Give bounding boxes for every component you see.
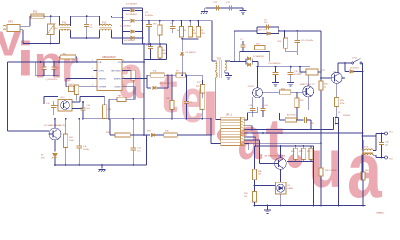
svg-text:6: 6 [123,76,124,78]
choke TV2 top winding [100,24,112,25]
wire [290,75,292,80]
capacitor C6 [266,24,268,29]
node [255,145,257,147]
wire [123,10,131,12]
wire SP right 2 [244,125,252,127]
ground C15b [287,80,294,86]
wire [20,29,23,31]
wire [23,43,60,45]
wire [284,31,286,38]
node [132,118,134,120]
wire [215,71,217,73]
svg-text:5: 5 [123,84,124,86]
node [132,118,134,120]
wire [248,112,258,114]
wire [275,67,277,73]
wire opto left top [44,96,58,98]
diode D7 [247,57,250,60]
capacitor C16a [250,109,255,111]
capacitor C9 [51,67,56,69]
capacitor CY2 [229,5,231,10]
node [280,145,282,147]
wire [252,111,254,117]
wire [54,104,58,106]
resistor R13 [103,105,107,119]
svg-text:50v: 50v [385,144,388,146]
wire [224,71,226,73]
wire [254,202,256,206]
wire [74,86,75,88]
svg-text:Q6 SMBT2907A(LT3): Q6 SMBT2907A(LT3) [264,155,285,158]
node [278,30,280,32]
wire opto right bottom [72,108,83,110]
wire [275,75,277,80]
wire [354,71,363,73]
node [295,145,297,147]
wire [338,62,352,64]
svg-text:8: 8 [123,60,124,62]
wire [155,134,164,136]
wire bridge negative bus [123,43,167,45]
node [54,164,56,166]
wire x146 vertical [146,135,148,165]
wire [201,110,203,119]
wire +310V bus [143,20,212,22]
wire R bottoms [287,161,311,163]
capacitor C14b electro [273,73,279,75]
diode VD9 [151,133,154,136]
component Y1 [69,86,74,92]
resistor R24 [280,90,291,94]
node [320,205,322,207]
wire [251,126,253,130]
wire [130,134,144,136]
wire [65,79,67,87]
transformer TV3 core2 [220,60,222,78]
wire [86,16,88,24]
wire [242,47,244,51]
wire R24 to Q3 [291,91,303,93]
wire [59,16,61,26]
wire [376,133,385,135]
svg-text:D7 HER106: D7 HER106 [253,56,265,58]
capacitor C12 [51,106,56,108]
ground CY right [240,8,247,14]
choke TV2 core [100,28,112,30]
svg-text:56R: 56R [365,170,369,172]
node [82,118,84,120]
wire y120 a [280,119,286,121]
wire [376,157,385,159]
wire IC vcc row [35,61,97,63]
node [201,118,203,120]
node [257,66,259,68]
wire [202,93,204,98]
wire y135 b [177,134,211,136]
wire [295,146,297,148]
node [86,37,88,39]
wire to XT1 branch [363,135,377,137]
wire [108,99,110,119]
wire [43,97,45,105]
node [275,66,277,68]
resistor R33 [361,172,365,180]
wire [362,149,364,151]
resistor R6 [158,47,162,58]
resistor R21a [200,89,204,110]
wire [278,31,280,34]
wire SP right 5 [244,139,259,141]
wire [111,16,113,17]
node [148,43,150,45]
resistor R15 [170,101,174,110]
node [320,77,322,79]
node [181,74,183,76]
wire [310,120,312,130]
wire [58,57,60,62]
choke TV1 bottom winding [60,29,71,30]
wire [53,62,55,67]
wire R30 R31 [254,180,256,192]
wire [53,101,55,105]
wire C16a up [252,97,254,108]
wire [279,113,281,120]
svg-text:TV3: TV3 [217,58,222,61]
wire [59,56,60,58]
wire [135,31,143,33]
wire [303,146,305,148]
wire ground stub b [267,206,269,208]
node [50,15,52,17]
node [171,118,173,120]
svg-text:RU: RU [55,28,59,30]
wire [290,67,292,73]
wire [203,8,205,12]
wire Q4 right stub [342,77,345,79]
wire top rail [71,15,100,17]
wire C6 loop left [256,27,258,31]
wire IC right pin 1 [122,61,126,63]
wire R11 loop left [146,75,148,88]
svg-text:a: a [238,106,263,172]
wire left vcc [8,61,36,63]
wire secondary out [230,61,246,63]
resistor R1 [60,55,75,59]
svg-text:1: 1 [92,60,93,62]
wire x144 vertical [143,60,145,119]
wire [310,160,312,162]
node [284,30,286,32]
wire Q4 collector [337,63,339,72]
node [167,74,169,76]
wire TV3 primary bottom down [215,78,217,120]
node [181,20,183,22]
wire [311,161,314,163]
wire Q3 emitter down [307,97,309,110]
wire R tops rail [256,145,314,147]
wire [295,160,297,162]
wire [159,21,161,25]
node [362,71,364,73]
wire join down [296,52,298,55]
svg-text:D2 1N4007: D2 1N4007 [126,14,138,16]
resistor R8 [117,97,126,101]
svg-text:270k: 270k [200,33,204,35]
resistor R31 [252,192,256,203]
wire TL ref [255,185,276,187]
node [143,134,145,136]
fuse FU1 [31,14,44,18]
connector SP_1 pin hatch [241,118,244,145]
node [50,43,52,45]
wire [159,58,161,60]
wire [109,119,111,135]
wire [262,111,264,117]
choke TV1 top winding [60,24,71,25]
wire [164,74,168,76]
optocoupler U1 [253,88,263,98]
capacitor C10 [80,108,85,110]
wire bus to TV3 [211,21,213,61]
svg-text:INNER: INNER [114,79,121,81]
node [303,145,305,147]
wire [135,20,143,22]
node [296,30,298,32]
svg-text:VD6 1N4148: VD6 1N4148 [159,83,171,85]
wire [43,69,45,75]
capacitor C15b electro [288,73,294,75]
transistor Q7 [49,128,61,140]
wire Q7 emitter [54,140,56,152]
node [210,118,212,120]
wire [248,144,250,151]
node [189,20,191,22]
resistor R18 [284,38,288,48]
resistor R4 [188,27,192,38]
wire row y75b [186,74,203,76]
wire y135 c [110,134,115,136]
wire [148,27,150,44]
svg-text:D9 4D007: D9 4D007 [350,67,360,69]
wire IC left pin 2 [94,69,98,71]
resistor R12 [75,85,79,95]
diode D3 [131,30,134,33]
wire pin5 right [122,86,135,88]
node [254,205,256,207]
chassis ground bottom-left [99,170,106,173]
wire [99,16,101,26]
node [159,20,161,22]
diode VD7 [267,32,270,35]
node [76,61,78,63]
wire left drop [7,62,9,131]
wire IC right pin 3 [122,78,126,80]
wire Q6 base [260,163,275,165]
wire R3R4R5 join [182,38,199,40]
wire Q4 base [321,77,331,79]
svg-text:D4 1N4007: D4 1N4007 [124,40,136,42]
wire [271,33,279,35]
wire opto feed [257,67,259,88]
svg-text:Q7 SMBT2369A(LT1): Q7 SMBT2369A(LT1) [44,124,65,127]
node [313,205,315,207]
wire [132,150,134,165]
wire snubber row [240,51,270,53]
wire C6 loop right [278,27,280,31]
wire [79,97,81,103]
wire Q5 source down [338,125,340,205]
node [65,164,67,166]
node [53,61,55,63]
wire [70,16,72,26]
resistor R30 [252,169,256,180]
node fan2 [262,132,264,134]
wire [104,118,106,120]
resistor R11 [150,73,164,77]
terminal XT2 [385,156,388,159]
capacitor C3 [148,46,153,48]
wire opto right top [72,101,80,103]
wire C6 loop top [257,26,279,28]
wire [112,37,143,39]
wire [373,149,376,151]
node [159,43,161,45]
svg-text:OTHER: OTHER [99,87,107,89]
wire TL431 down [280,194,282,205]
optocoupler U1.2 body [58,100,72,112]
stub [255,145,256,147]
resistor R14 [64,134,68,148]
watermark dot [217,128,231,142]
wire C19 up [381,134,383,143]
plug XP1 [3,25,20,32]
node [78,118,80,120]
resistor R2 [158,25,162,35]
wire [171,110,173,119]
node [82,101,84,103]
svg-text:1k: 1k [324,86,326,88]
wire bottom rail right [255,205,366,207]
node [150,43,152,45]
diode D5 [180,52,183,55]
component VU1 [306,69,318,75]
wire Q3 collector up [307,72,309,86]
wire [300,71,306,73]
wire [186,104,188,119]
wire SP pin1 left [216,119,221,121]
diode D2 [131,19,134,22]
wire [186,75,188,101]
optocoupler U1.2 transistor [61,101,70,110]
node fan1 [251,129,253,131]
svg-text:10n: 10n [87,108,90,110]
wire bridge right rail [142,8,144,44]
wire IC left pin 4 [94,86,98,88]
node [108,118,110,120]
wire [53,108,55,115]
node [40,61,42,63]
wire aux left drop [233,31,235,62]
resistor R16 [164,133,178,137]
svg-text:SENSE: SENSE [99,79,107,81]
wire C17a up [262,97,264,108]
wire R30 up [254,146,256,169]
transformer TV3 primary upper [216,61,217,71]
wire [296,43,298,52]
wire [78,148,80,165]
wire [30,15,31,17]
node [53,74,55,76]
wire TV4 top feed [362,63,364,149]
wire x313 down [313,146,315,205]
resistor R23 [335,97,339,106]
transistor Q3 [303,86,314,97]
svg-text:VINRA t.: VINRA t. [376,212,385,215]
svg-text:C14 1000/25v: C14 1000/25v [268,63,280,65]
wire [82,110,84,118]
svg-text:10k: 10k [244,196,247,198]
wire R11 loop right [167,75,169,88]
connector SP_1 body [221,117,245,145]
wire Q7 collector [54,119,56,128]
wire [255,137,257,146]
wire [373,154,376,156]
svg-text:LA431: LA431 [288,187,295,190]
wire [104,97,106,101]
watermark dot [288,154,302,168]
node [280,205,282,207]
wire to IC pin4 [79,86,97,88]
wire row y75a [168,74,176,76]
U2 TL431 body [275,182,286,194]
ground bottom [264,208,271,214]
transistor Q6 [275,158,287,170]
node [101,164,103,166]
wire Q7 base [8,130,50,132]
wire [147,74,150,76]
wire IC right pin 2 [122,69,126,71]
svg-text:2N7000: 2N7000 [343,115,351,117]
choke TV1 core [60,26,71,28]
svg-text:100k: 100k [69,140,73,142]
svg-text:4: 4 [92,84,93,86]
wire [148,21,150,25]
wire [50,35,52,44]
node [86,15,88,17]
wire [123,31,131,33]
wire [256,107,258,113]
node [143,43,145,45]
wire [135,37,143,39]
wire R33 down [362,180,364,206]
node [186,118,188,120]
svg-text:CN: CN [118,62,122,64]
resistor R21b [295,98,299,108]
svg-text:i: i [17,33,35,86]
wire [212,60,216,62]
wire fan line 3 [244,142,321,144]
svg-text:VD7 C???: VD7 C??? [258,29,268,31]
wire [159,44,161,47]
wire [147,87,151,89]
svg-text:t: t [160,60,179,125]
svg-text:R32 4.7k/2W: R32 4.7k/2W [325,170,337,172]
wire bottom rail [71,37,100,39]
resistor R27 [309,148,313,159]
node [198,20,200,22]
wire snub right down [269,52,271,62]
node [132,164,134,166]
